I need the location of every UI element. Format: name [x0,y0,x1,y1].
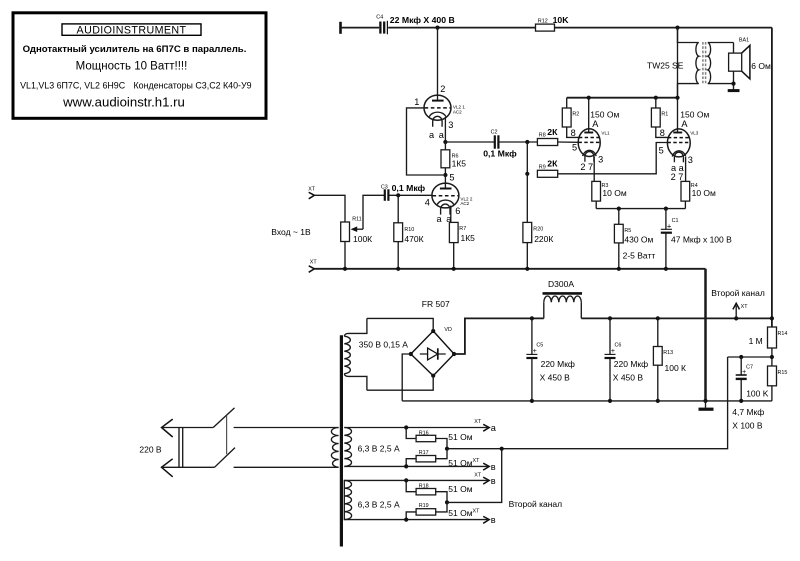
svg-text:R20: R20 [533,227,543,233]
tube VL2.1 [414,28,465,140]
svg-text:Второй канал: Второй канал [509,499,563,509]
node divider [770,355,774,359]
svg-text:100К: 100К [353,234,372,244]
node C6 gnd [608,399,612,403]
power transformer primary winding [331,428,338,468]
svg-text:в: в [491,462,496,472]
wire C2 to R8 [499,141,537,143]
node R11 gnd [343,267,347,271]
svg-text:FR 507: FR 507 [422,299,450,309]
wire heater row 3 [344,479,487,481]
svg-text:Второй канал: Второй канал [711,288,765,298]
node row2 R17 [404,464,408,468]
resistor R20 [523,222,553,268]
wire heater row 4 [344,519,487,521]
svg-text:10K: 10K [553,15,570,25]
svg-text:а: а [439,130,445,140]
resistor R12 [536,15,570,31]
svg-text:0,1 Мкф: 0,1 Мкф [392,183,426,193]
svg-text:220К: 220К [534,234,553,244]
svg-text:R7: R7 [459,226,466,232]
resistor R6 [441,142,466,175]
svg-text:R19: R19 [419,503,429,509]
title info box [13,13,266,119]
svg-text:C3: C3 [381,184,388,190]
svg-text:X 100 В: X 100 В [732,420,763,430]
switch link [226,416,228,454]
resistor R8 [537,127,578,146]
wire second channel heater tap [447,449,502,503]
capacitor C2 [483,130,517,159]
resistor R16 [406,428,473,449]
resistor R7 [449,206,475,269]
svg-text:6,3 В 2,5 А: 6,3 В 2,5 А [358,500,400,510]
svg-text:350 В 0,15 А: 350 В 0,15 А [359,340,408,350]
output transformer core [703,42,706,84]
svg-text:в: в [491,515,496,525]
svg-text:Конденсаторы С3,С2 К40-У9: Конденсаторы С3,С2 К40-У9 [134,80,252,90]
resistor R15 [746,366,787,401]
resistor R19 [406,502,480,519]
svg-text:TW25 SE: TW25 SE [647,60,684,70]
tube VL1 [571,98,610,172]
heater winding 1 [344,428,400,467]
svg-text:VL1,VL3 6П7С, VL2 6Н9С: VL1,VL3 6П7С, VL2 6Н9С [20,80,126,90]
svg-text:51 Ом: 51 Ом [448,432,472,442]
svg-text:AUDIOINSTRUMENT: AUDIOINSTRUMENT [77,24,187,36]
terminal XT B+ arrow [733,303,748,318]
svg-text:R10: R10 [404,227,414,233]
node R5 gnd [617,267,621,271]
svg-text:R11: R11 [352,216,362,222]
wire VL2.1 grid loop to VL2.2 plate [407,108,444,175]
wire switch to primary top [234,427,339,429]
svg-text:C2: C2 [491,130,498,136]
svg-text:6,3 В 2,5 А: 6,3 В 2,5 А [358,444,400,454]
node C5 [530,316,534,320]
node R10 top [396,193,400,197]
svg-text:220 Мкф: 220 Мкф [614,359,648,369]
node C5 gnd [530,399,534,403]
node main gnd [703,399,707,403]
svg-text:C6: C6 [615,342,622,348]
wire VL3 cathode [685,157,687,181]
svg-text:R12: R12 [538,18,548,24]
capacitor C5 [526,318,575,401]
svg-text:3: 3 [598,154,603,164]
wire AC1 to bridge top [367,318,433,331]
terminal XT row4 [483,515,496,525]
wire B+ rail mid [388,27,535,29]
node R1 tap [654,96,658,100]
resistor R1 [651,98,668,138]
resistor R14 [749,327,788,366]
svg-text:XT: XT [473,508,481,514]
node speaker gnd [731,82,735,86]
node C6 [608,316,612,320]
node C1 gnd [664,267,668,271]
wire switch to primary bottom [234,466,339,468]
node VL1 anode tap [587,96,591,100]
svg-text:+: + [533,348,537,355]
chassis terminal (left of C4) [339,22,342,34]
wire B+ rail (PSU) [581,317,772,319]
bridge rectifier VD [409,327,457,378]
svg-text:3: 3 [688,155,693,165]
wire ground rail (driver) [314,268,705,270]
svg-text:Мощность 10 Ватт!!!!: Мощность 10 Ватт!!!! [76,60,188,72]
svg-text:3: 3 [448,120,453,130]
ground (speaker) [728,84,740,91]
wire bridge minus to ground rail [402,354,411,401]
svg-text:XT: XT [308,187,316,193]
input terminal XT top [308,187,316,199]
wire heater row 2 [344,465,487,467]
svg-text:а: а [437,214,443,224]
input terminal XT bottom [309,259,318,272]
wire wiper riser to C3 [363,195,384,229]
choke D300A [543,279,583,318]
resistor R17 [406,449,480,468]
svg-text:АС2: АС2 [460,201,469,206]
svg-text:XT: XT [310,259,318,265]
svg-text:www.audioinstr.h1.ru: www.audioinstr.h1.ru [62,95,185,110]
wire C3 to grid VL2.2 [389,194,432,196]
output transformer primary [678,28,699,98]
svg-text:51 Ом: 51 Ом [448,484,472,494]
switch blade top [213,408,234,428]
resistor R2 [562,98,579,138]
node SRPP output [443,140,447,144]
heater winding 2 [344,480,400,519]
terminal XT row3 [474,472,496,486]
wire VL2.1 cathode lead [444,117,446,142]
svg-text:4,7 Мкф: 4,7 Мкф [732,407,764,417]
svg-text:X 450 В: X 450 В [540,373,571,383]
wire B+ rail right [555,27,772,29]
resistor R10 [394,195,424,268]
svg-text:BA1: BA1 [739,38,749,44]
terminal XT row2 [483,462,496,472]
svg-text:51 Ом: 51 Ом [448,508,472,518]
svg-text:R14: R14 [778,331,788,337]
node VL2.2 plate [443,173,447,177]
wire mains bottom [162,466,215,468]
svg-text:XT: XT [741,304,749,310]
svg-text:8: 8 [660,128,665,138]
node heater center tap [445,447,449,451]
wire right edge B+ vertical [771,28,773,327]
svg-text:D300A: D300A [548,279,574,289]
node transformer/plate rail [675,96,679,100]
capacitor C7 [732,357,764,430]
svg-text:470К: 470К [404,234,423,244]
resistor R3 [592,181,627,208]
ground (PSU) [699,401,714,409]
wire main ground drop [704,269,707,401]
resistor R18 [406,480,473,502]
wire VL1 cathode [593,157,595,182]
svg-text:430 Ом: 430 Ом [624,235,653,245]
svg-text:R2: R2 [572,111,579,117]
node XT B+ [734,316,738,320]
wire mains top [162,427,214,429]
wire cathode rail [596,208,685,210]
node R13 gnd [656,399,660,403]
wire input to R11 [314,195,345,222]
svg-text:XT: XT [474,419,482,425]
switch blade bottom [215,448,236,468]
power transformer core [340,335,343,546]
svg-text:C1: C1 [672,218,679,224]
wire split down to R9 [526,142,528,174]
node row4 R19 [404,518,408,522]
svg-text:R8: R8 [539,133,546,139]
wire AC2 to bridge bottom [367,376,433,391]
svg-text:1К5: 1К5 [461,233,476,243]
svg-text:2 7: 2 7 [580,162,593,172]
svg-text:R5: R5 [624,228,631,234]
svg-text:4: 4 [425,197,430,207]
svg-text:6: 6 [455,206,460,216]
svg-text:R17: R17 [419,450,429,456]
svg-text:22 Мкф X 400 В: 22 Мкф X 400 В [390,15,455,25]
resistor R4 [681,181,716,208]
node second channel [500,447,504,451]
svg-text:C7: C7 [746,364,753,370]
node row3 R18 [404,478,408,482]
node R20 gnd [525,267,529,271]
node R5 [617,207,621,211]
svg-text:5: 5 [659,145,664,155]
svg-text:VL3: VL3 [690,131,699,136]
svg-text:5: 5 [449,172,454,182]
resistor R9 [537,159,558,178]
svg-text:R9: R9 [539,165,546,171]
svg-text:А: А [681,119,688,129]
wire B+ rail left [341,27,380,29]
svg-text:X 450 В: X 450 В [613,373,644,383]
svg-text:8: 8 [571,128,576,138]
svg-text:а: а [491,423,497,433]
node C7 gnd [739,399,743,403]
svg-text:Вход ~ 1В: Вход ~ 1В [271,227,311,237]
wire ground rail (PSU) [402,400,772,402]
mains prong top [162,419,173,437]
wire plate rail (output stage) [567,97,678,99]
node R7 gnd [452,267,456,271]
svg-text:10 Ом: 10 Ом [692,188,716,198]
wire R9 to VL3 grid [558,143,668,174]
node R13 [656,316,660,320]
tube VL2.2 [425,172,473,223]
node R9 tap [525,172,529,176]
capacitor C4 [376,15,454,35]
svg-text:R13: R13 [663,350,673,356]
node R8/R9 split [525,140,529,144]
svg-text:Однотактный усилитель на 6П7С: Однотактный усилитель на 6П7С в параллел… [23,44,247,55]
node row1 R16 [404,425,408,429]
node VL2.1 plate tap [435,26,439,30]
speaker BA1 [729,38,771,84]
capacitor C1 [661,209,732,269]
node B+ / output transformer [675,26,679,30]
wire to C2 [445,141,494,143]
svg-text:10 Ом: 10 Ом [602,188,626,198]
svg-text:R15: R15 [778,370,788,376]
tube VL3 [659,28,699,183]
svg-text:220 В: 220 В [139,444,162,454]
svg-text:150 Ом: 150 Ом [680,109,709,119]
svg-text:в: в [491,476,496,486]
svg-text:100 K: 100 K [746,389,769,399]
svg-text:2К: 2К [547,127,558,137]
svg-text:+: + [611,348,615,355]
plug bars [179,428,183,468]
svg-text:2 7: 2 7 [671,172,684,182]
svg-text:VL1: VL1 [601,131,610,136]
node C1 [664,207,668,211]
svg-text:АС2: АС2 [453,109,462,114]
svg-text:XT: XT [474,472,482,478]
terminal XT row1 [474,419,497,433]
resistor R5 [614,209,655,269]
svg-text:2: 2 [440,84,445,94]
svg-text:R1: R1 [661,111,668,117]
svg-text:А: А [592,119,599,129]
svg-text:220 Мкф: 220 Мкф [541,359,575,369]
wire split down to R20 [526,174,528,223]
svg-text:R16: R16 [419,430,429,436]
svg-text:150 Ом: 150 Ом [590,109,619,119]
svg-text:R18: R18 [419,484,429,490]
svg-text:2-5 Ватт: 2-5 Ватт [623,251,656,261]
node heater center tap 2 [445,500,449,504]
HV winding 350V [344,318,408,390]
wire bridge plus to B+ rail [454,318,544,354]
svg-text:C4: C4 [376,15,383,21]
svg-text:а: а [429,130,435,140]
output transformer secondary [708,43,734,84]
svg-text:VD: VD [444,327,452,333]
wire divider to C7 [728,356,772,358]
node rail corner [770,316,774,320]
svg-text:5: 5 [572,143,577,153]
svg-text:1 М: 1 М [749,336,763,346]
node C7 top [739,355,743,359]
wire heater row 1 [344,427,487,429]
svg-text:6 Ом: 6 Ом [751,61,771,71]
svg-text:47 Мкф x 100 В: 47 Мкф x 100 В [671,235,732,245]
svg-text:100 К: 100 К [665,363,687,373]
svg-text:1: 1 [414,97,419,107]
mains prong bottom [162,459,173,477]
wire R11 bottom [344,242,346,269]
svg-text:XT: XT [473,458,481,464]
capacitor C3 [381,183,426,201]
potentiometer R11 [341,216,372,244]
wire heater elevation rail [447,357,728,449]
svg-text:C5: C5 [536,342,543,348]
svg-text:0,1 Мкф: 0,1 Мкф [483,149,517,159]
svg-text:1К5: 1К5 [452,159,467,169]
resistor R13 [653,318,686,401]
capacitor C6 [605,318,649,401]
svg-text:2К: 2К [547,159,558,169]
node R10 gnd [396,267,400,271]
